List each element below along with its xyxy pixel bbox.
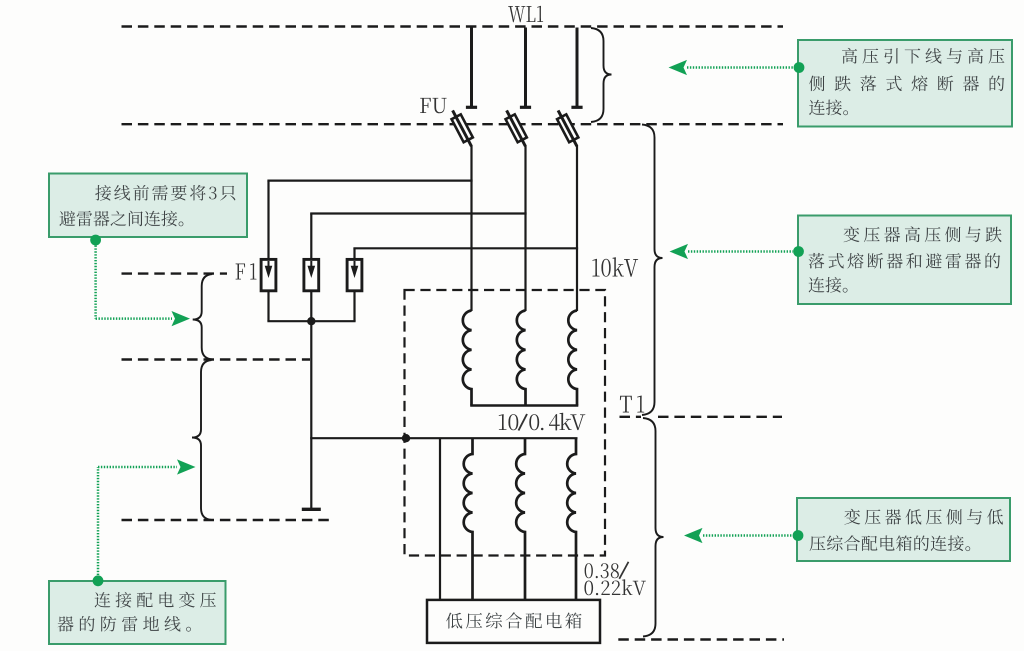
label 0.38/	[585, 563, 619, 578]
transformer T1 secondary winding 3	[567, 438, 576, 600]
label 10/0.4kV	[499, 414, 519, 430]
transformer T1 primary winding 1	[463, 311, 472, 406]
node: arrester bus junction	[307, 317, 315, 325]
callout box: HV drop wire note (top right)	[798, 40, 1012, 127]
label 低压综合配电箱	[446, 612, 582, 628]
callout box: lightning ground wire note (bottom left)	[49, 581, 226, 644]
transformer T1 primary winding 3	[568, 311, 577, 406]
callout box: LV side connection note (bottom right)	[797, 498, 1010, 561]
wire: arrester 3 to common bus	[353, 291, 355, 321]
label WL1	[508, 6, 543, 22]
node: junction on neutral at transformer box edge	[402, 434, 410, 442]
callout box: HV side connection note (middle right)	[798, 216, 1011, 305]
arrow: callout 3 to LV section brace	[703, 534, 792, 537]
wire: arrester common bus	[267, 320, 355, 322]
brace: grounding section (left lower)	[192, 360, 212, 520]
wire: arrester 2 to common bus	[310, 291, 312, 321]
wire: arrester riser phase 2	[310, 214, 312, 260]
wire: arrester 1 to common bus	[267, 291, 269, 321]
label F1	[236, 263, 257, 279]
wire: left dashed reference line (arrester top)	[122, 272, 228, 274]
wire: arrester riser phase 3	[353, 248, 355, 259]
arrow: callout 2 to HV section brace	[688, 250, 793, 253]
wire: dashed reference line at T1 level	[620, 416, 642, 418]
transformer T1 secondary winding 2	[516, 438, 525, 600]
wire: fuse-level dashed line	[122, 123, 784, 125]
surge arrester F1 unit 1	[261, 259, 276, 290]
brace: HV drop section (right top)	[591, 28, 612, 122]
wire: drop conductor phase 3	[576, 28, 579, 107]
brace: arrester section (left upper)	[193, 274, 213, 360]
arrow: callout A to arrester brace	[94, 246, 97, 319]
label T1	[620, 396, 644, 413]
transformer T1 primary winding 2	[517, 311, 526, 406]
fuse FU phase 3 (drop-out fuse)	[557, 110, 578, 146]
wire: earthing down-conductor	[310, 321, 312, 508]
wire: primary delta bottom bus	[470, 404, 578, 407]
wire: phase 2 conductor from fuse to transformer	[524, 145, 526, 311]
label 0.22kV	[584, 579, 646, 595]
wire: drop conductor phase 2	[524, 28, 527, 107]
transformer T1 secondary winding 1	[464, 438, 473, 600]
surge arrester F1 unit 2	[304, 259, 319, 290]
wire: arrester riser phase 1	[267, 181, 269, 260]
wire: arrester tap horizontal phase 3	[353, 247, 578, 249]
wire: dashed reference line bottom right	[618, 638, 784, 640]
brace: HV-to-transformer section (right middle)	[642, 125, 663, 416]
surge arrester F1 unit 3	[347, 259, 362, 290]
arrow: callout 1 to HV drop brace	[687, 66, 794, 69]
wire: overhead feeder line WL1 (dashed)	[122, 25, 784, 27]
label FU	[420, 98, 447, 113]
wire: phase 1 conductor from fuse to transformer	[470, 145, 472, 311]
label 10kV	[592, 257, 638, 277]
wire: arrester tap horizontal phase 2	[310, 212, 526, 214]
wire: star-point / neutral horizontal	[310, 437, 577, 439]
wire: left dashed reference line (arrester bottom)	[122, 358, 311, 360]
callout box: arrester interconnection note (top left)	[49, 174, 247, 238]
wire: phase 3 conductor from fuse to transformer	[576, 145, 578, 311]
transformer T1 dashed enclosure	[405, 290, 606, 556]
wire: neutral conductor to LV box	[439, 438, 441, 600]
wire: left dashed reference line (ground)	[122, 519, 331, 521]
wire: arrester tap horizontal phase 1	[267, 180, 472, 182]
fuse FU phase 1 (drop-out fuse)	[452, 110, 473, 146]
LV distribution cabinet box	[427, 600, 600, 643]
ground electrode bar	[302, 508, 321, 511]
fuse FU phase 2 (drop-out fuse)	[506, 110, 527, 146]
wire: drop conductor phase 1	[470, 28, 473, 107]
brace: LV section (right bottom)	[643, 418, 664, 637]
arrow: callout B to grounding brace	[97, 467, 100, 575]
